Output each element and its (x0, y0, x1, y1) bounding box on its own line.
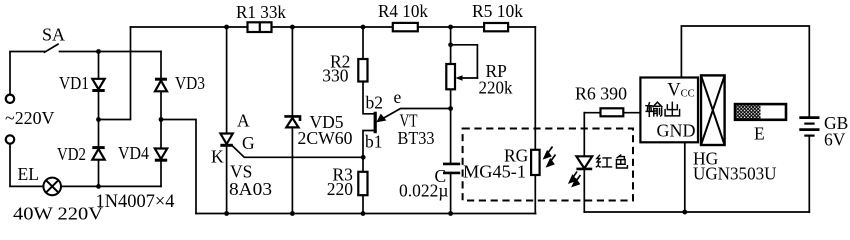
svg-text:SA: SA (42, 25, 65, 45)
svg-text:b2: b2 (366, 93, 384, 113)
svg-text:A: A (237, 111, 250, 131)
svg-text:VD3: VD3 (175, 73, 205, 93)
svg-text:0.022µ: 0.022µ (399, 181, 448, 201)
svg-text:R1 33k: R1 33k (236, 2, 286, 22)
svg-text:E: E (754, 124, 765, 144)
svg-text:1N4007×4: 1N4007×4 (96, 191, 175, 212)
svg-text:~220V: ~220V (5, 108, 55, 128)
svg-text:K: K (211, 147, 224, 167)
svg-text:b1: b1 (365, 132, 383, 152)
svg-text:R4 10k: R4 10k (378, 1, 428, 21)
svg-text:MG45-1: MG45-1 (463, 162, 526, 182)
svg-text:G: G (242, 133, 255, 153)
svg-text:UGN3503U: UGN3503U (693, 164, 777, 184)
svg-text:330: 330 (322, 66, 349, 86)
svg-text:2CW60: 2CW60 (298, 128, 353, 148)
svg-text:e: e (394, 87, 402, 107)
svg-text:R5 10k: R5 10k (472, 1, 523, 21)
svg-text:EL: EL (18, 164, 39, 184)
svg-text:VD4: VD4 (118, 143, 149, 163)
svg-text:GND: GND (657, 121, 696, 141)
svg-text:BT33: BT33 (398, 128, 435, 148)
svg-text:VCC: VCC (667, 81, 694, 101)
svg-text:8A03: 8A03 (229, 179, 272, 199)
svg-text:40W 220V: 40W 220V (13, 204, 103, 224)
svg-text:VD1: VD1 (59, 73, 89, 93)
svg-text:6V: 6V (824, 130, 846, 150)
svg-text:220k: 220k (479, 78, 513, 98)
svg-text:220: 220 (327, 179, 354, 199)
svg-text:R6 390: R6 390 (575, 84, 627, 104)
svg-text:VD2: VD2 (57, 144, 86, 164)
